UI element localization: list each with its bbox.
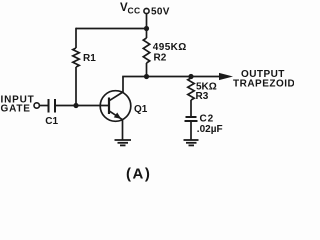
resistor R3 bbox=[188, 78, 194, 100]
ground below Q1 emitter bbox=[115, 140, 132, 145]
node junction R1 / input wire bbox=[73, 103, 78, 108]
wire VCC terminal to top rail bbox=[146, 14, 148, 29]
capacitor C2 bbox=[185, 117, 198, 121]
wire C2 to ground bbox=[190, 122, 192, 140]
capacitor C1 bbox=[49, 99, 56, 113]
node junction R2 / mid rail bbox=[144, 74, 149, 79]
label INPUT GATE bbox=[1, 94, 35, 114]
resistor R2 bbox=[143, 38, 149, 63]
wire R2 bottom to mid rail bbox=[146, 63, 148, 77]
transistor Q1 bbox=[100, 91, 131, 122]
wire input terminal to C1 bbox=[40, 105, 49, 107]
svg-text:R2: R2 bbox=[154, 53, 167, 64]
ground below C2 bbox=[184, 140, 199, 145]
wire left branch down to R1 bbox=[75, 28, 77, 48]
wire collector up to mid rail bbox=[122, 77, 124, 93]
label VCC bbox=[120, 2, 140, 16]
svg-text:Q1: Q1 bbox=[134, 104, 148, 115]
wire R1 bottom to input node bbox=[75, 67, 77, 106]
wire C1 to base bbox=[56, 105, 109, 107]
resistor R1 bbox=[73, 48, 79, 67]
svg-text:.02µF: .02µF bbox=[197, 124, 223, 135]
svg-text:R1: R1 bbox=[83, 53, 96, 64]
node junction R3 / mid rail bbox=[188, 74, 193, 79]
svg-text:TRAPEZOID: TRAPEZOID bbox=[233, 79, 294, 90]
svg-text:R3: R3 bbox=[196, 91, 209, 102]
wire mid rail horizontal to arrow bbox=[122, 76, 220, 78]
svg-text:CC: CC bbox=[128, 6, 141, 16]
svg-text:GATE: GATE bbox=[1, 104, 31, 115]
output arrowhead bbox=[219, 73, 233, 80]
VCC terminal circle bbox=[144, 8, 149, 13]
svg-text:(A): (A) bbox=[126, 166, 151, 183]
label OUTPUT TRAPEZOID bbox=[233, 69, 295, 90]
input terminal circle bbox=[34, 103, 39, 108]
wire emitter down to ground bbox=[122, 120, 124, 140]
wire R3 bottom to C2 bbox=[190, 100, 192, 116]
wire VCC branch down to R2 bbox=[146, 29, 148, 39]
wire top rail horizontal bbox=[76, 28, 147, 30]
node junction top rail / VCC bbox=[144, 26, 149, 31]
svg-text:C1: C1 bbox=[45, 116, 58, 127]
svg-text:50V: 50V bbox=[151, 7, 170, 18]
